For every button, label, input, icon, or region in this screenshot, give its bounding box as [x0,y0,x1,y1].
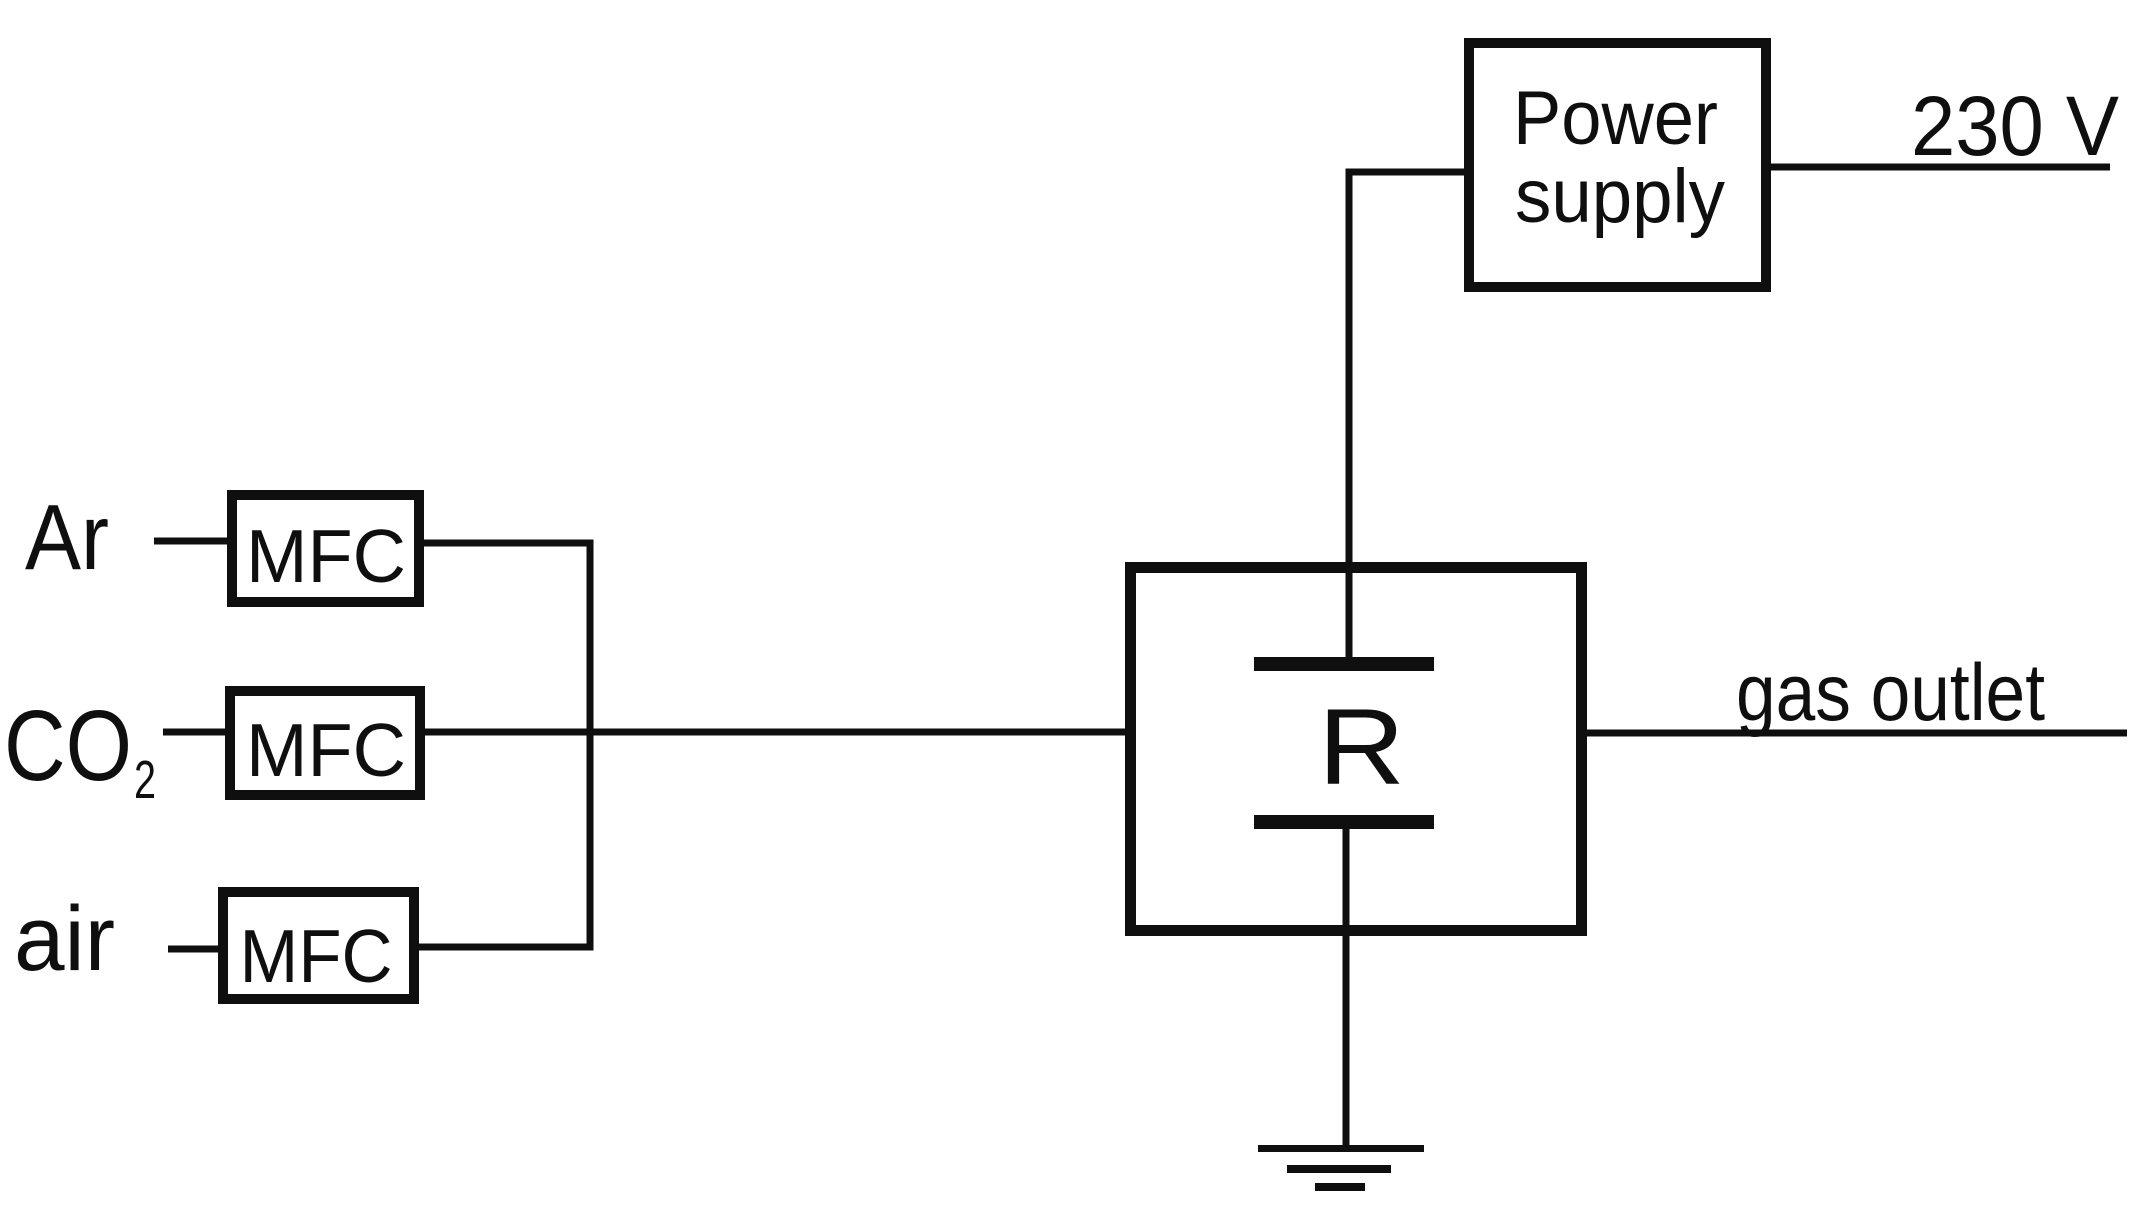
svg-text:CO: CO [4,690,132,802]
svg-text:gas outlet: gas outlet [1736,648,2045,738]
wire: air inlet to MFC3 [168,946,225,953]
electrode: bottom (ground electrode) [1254,815,1434,829]
svg-text:air: air [14,888,115,990]
svg-text:R: R [1318,686,1405,807]
wire: MFC1 output to mixing bus [420,540,593,547]
wire: gas outlet line from reactor [1582,730,2127,737]
svg-text:230 V: 230 V [1911,79,2119,173]
svg-text:MFC: MFC [246,514,406,598]
wire: CO2 inlet to MFC2 [163,729,232,736]
reactor R vessel [1131,568,1582,931]
MFC3: mass flow controller (air) [223,892,414,999]
wire: MFC3 output to mixing bus [415,944,593,951]
svg-text:MFC: MFC [246,708,406,792]
power supply U1 [1469,43,1766,287]
svg-text:supply: supply [1515,154,1725,239]
svg-text:Power: Power [1513,76,1718,161]
MFC2: mass flow controller (CO2) [230,691,420,795]
svg-text:2: 2 [134,750,156,810]
svg-text:Ar: Ar [25,485,109,589]
wire: gas feed line from bus to reactor [420,729,1130,736]
MFC1: mass flow controller (Ar) [232,495,419,602]
wire: bottom electrode to ground [1343,825,1350,1148]
svg-text:MFC: MFC [240,914,393,998]
ground symbol [1258,1149,1424,1188]
wire: Ar inlet to MFC1 [154,538,232,545]
electrode: top (HV electrode) [1254,657,1434,671]
wire: HV lead from power supply down to top electrode [1349,172,1469,660]
wire: mains lead from power supply [1766,164,2110,171]
node B: CO2 gas inlet label [4,690,156,810]
wire: mixing bus vertical [587,540,594,951]
